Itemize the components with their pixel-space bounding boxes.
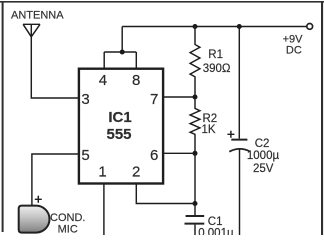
svg-text:3: 3 [81,91,89,108]
svg-text:390Ω: 390Ω [203,63,231,75]
node R1 top [193,24,198,29]
capacitor C1 [194,204,196,216]
mic plus sign [35,196,42,203]
wire pin 1 down [103,184,105,236]
svg-text:25V: 25V [253,163,274,175]
node C1 top [193,201,198,206]
svg-text:5: 5 [81,147,89,164]
wire pin 2 elbow to C1 node [136,184,195,204]
svg-text:8: 8 [132,72,140,89]
svg-text:MIC: MIC [58,223,78,235]
pin 8 stub [135,52,137,69]
svg-text:ANTENNA: ANTENNA [11,10,64,22]
terminal +9V DC [307,24,313,30]
svg-text:2: 2 [132,163,140,180]
capacitor C2 lead top [238,27,240,139]
svg-text:+9V: +9V [283,33,304,45]
svg-text:R1: R1 [208,49,223,61]
node pin7 R1 R2 [193,95,198,100]
resistor R2 [190,97,200,153]
svg-text:555: 555 [106,126,131,143]
svg-text:7: 7 [150,91,158,108]
svg-text:C2: C2 [255,138,270,150]
resistor R1 [190,27,200,98]
svg-text:6: 6 [150,147,158,164]
wire antenna mast to pin 3 [31,24,79,98]
wire bar joining pins 4 and 8 [104,51,136,53]
svg-text:DC: DC [286,45,302,57]
condenser mic body [19,206,50,233]
wire pin 5 to mic [32,154,79,206]
wire R2 junction down to C1 [194,153,196,203]
frame right border [321,1,323,235]
frame left border [2,1,4,232]
junction dot on 4-8 bar [120,50,125,55]
capacitor C2 plates [231,139,247,141]
wire supply drop to 4-8 bar [121,27,123,53]
frame top border [0,1,324,3]
svg-text:1K: 1K [202,124,216,136]
wire pin 6 to R2 bottom [163,152,195,154]
svg-text:4: 4 [99,72,107,89]
C2 plus sign [227,131,234,138]
antenna symbol [23,24,40,37]
svg-text:0.001µ: 0.001µ [198,227,234,235]
capacitor C2 lead bottom [239,149,241,235]
node C2 top [237,24,242,29]
svg-text:IC1: IC1 [108,109,131,126]
wire +9V top rail [122,26,307,28]
pin 4 stub [103,52,105,69]
node pin6 R2 [193,151,198,156]
op IC1 555 box [79,69,163,184]
svg-text:1000µ: 1000µ [247,150,280,162]
wire pin 7 to R1/R2 junction [163,96,195,98]
svg-text:1: 1 [98,163,106,180]
